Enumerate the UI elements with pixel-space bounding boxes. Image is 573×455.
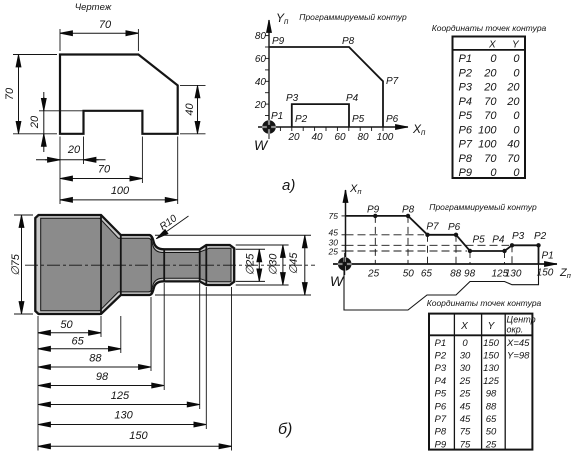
svg-text:0: 0: [462, 338, 468, 349]
W symbol origin: [258, 116, 280, 139]
dim 70 bottom: [60, 164, 142, 179]
SEC5 bottom-middle plot: [328, 183, 571, 310]
header X Y: [488, 40, 520, 51]
svg-text:∅75: ∅75: [10, 253, 22, 276]
svg-text:Чертеж: Чертеж: [75, 2, 112, 13]
svg-text:Y: Y: [488, 321, 496, 332]
dim 98: [38, 371, 164, 386]
svg-text:125: 125: [111, 390, 130, 402]
svg-text:0: 0: [513, 67, 520, 79]
svg-text:Xп: Xп: [349, 183, 361, 196]
dim d75 left: [10, 215, 33, 314]
svg-text:88: 88: [486, 401, 497, 412]
svg-text:P5: P5: [459, 110, 473, 122]
contour point dots: [373, 214, 541, 254]
svg-text:Y: Y: [512, 40, 520, 51]
mirrored lower half contour: [344, 264, 539, 310]
svg-text:30: 30: [460, 351, 471, 362]
svg-text:P2: P2: [534, 231, 547, 242]
svg-text:X: X: [488, 40, 496, 51]
column lines: [453, 314, 455, 450]
junction edge at 130: [205, 245, 207, 285]
svg-text:75: 75: [460, 427, 471, 438]
dim 125: [38, 390, 200, 405]
Y tick labels: [254, 31, 267, 111]
Z axis (horizontal): [333, 263, 557, 265]
svg-text:P9: P9: [435, 439, 447, 450]
svg-text:40: 40: [184, 103, 196, 116]
svg-text:88: 88: [450, 269, 462, 280]
svg-text:P7: P7: [386, 76, 399, 87]
dim 50: [38, 319, 101, 333]
X ticks: [280, 127, 383, 131]
svg-text:∅45: ∅45: [288, 252, 300, 275]
svg-text:80: 80: [357, 132, 369, 143]
svg-text:P4: P4: [346, 93, 359, 104]
svg-text:50: 50: [403, 269, 415, 280]
svg-text:150: 150: [483, 351, 500, 362]
dim 70 top: [60, 19, 138, 33]
svg-text:P1: P1: [271, 111, 283, 122]
Y axis: [268, 20, 270, 127]
svg-text:150: 150: [537, 268, 554, 279]
svg-text:25: 25: [459, 389, 471, 400]
svg-text:25: 25: [485, 439, 497, 450]
svg-text:70: 70: [484, 110, 497, 122]
svg-text:X=45: X=45: [506, 338, 530, 349]
svg-text:25: 25: [328, 247, 339, 257]
svg-text:130: 130: [114, 410, 133, 422]
dim d45 right: [155, 235, 311, 295]
svg-text:65: 65: [486, 414, 497, 425]
svg-text:0: 0: [490, 167, 497, 179]
header texts: [460, 315, 535, 335]
svg-text:Центр: Центр: [507, 315, 536, 325]
svg-text:∅25: ∅25: [245, 253, 257, 276]
dashed drop lines: [375, 216, 512, 264]
svg-text:P8: P8: [435, 427, 447, 438]
svg-text:Zп: Zп: [559, 267, 571, 280]
svg-text:70: 70: [507, 153, 520, 165]
svg-text:P7: P7: [426, 222, 439, 233]
svg-text:P2: P2: [295, 114, 308, 125]
svg-text:Координаты точек контура: Координаты точек контура: [427, 298, 542, 308]
svg-text:окр.: окр.: [507, 325, 524, 335]
svg-text:P5: P5: [435, 389, 447, 400]
svg-text:150: 150: [483, 338, 500, 349]
svg-text:W: W: [330, 273, 345, 289]
junction edge at 88: [150, 235, 152, 295]
part outline: [60, 55, 178, 134]
svg-text:P1: P1: [542, 251, 554, 262]
svg-text:20: 20: [254, 100, 267, 111]
svg-text:20: 20: [287, 132, 300, 143]
table frame: [453, 37, 526, 179]
junction edge at 50: [100, 215, 102, 314]
svg-text:60: 60: [255, 54, 267, 65]
junction edge at 65: [120, 235, 122, 296]
svg-text:20: 20: [506, 82, 520, 94]
centerline: [25, 264, 315, 266]
svg-text:60: 60: [334, 132, 346, 143]
dim 40 right: [184, 85, 198, 133]
svg-text:98: 98: [96, 371, 109, 383]
part inner contour (main gray fill): [41, 218, 231, 311]
svg-text:P2: P2: [435, 351, 447, 362]
svg-text:40: 40: [507, 139, 520, 151]
svg-text:0: 0: [490, 53, 497, 65]
junction edge at 98: [163, 249, 165, 281]
svg-text:20: 20: [483, 67, 497, 79]
svg-text:P5: P5: [473, 235, 486, 246]
header underline: [429, 334, 532, 336]
svg-text:P6: P6: [386, 114, 399, 125]
svg-text:20: 20: [483, 82, 497, 94]
svg-text:P7: P7: [435, 414, 447, 425]
svg-text:70: 70: [4, 87, 16, 100]
X axis: [258, 126, 408, 128]
svg-text:20: 20: [29, 115, 41, 129]
svg-text:50: 50: [60, 319, 73, 331]
svg-text:P5: P5: [352, 114, 365, 125]
dim 70 left: [4, 55, 19, 134]
X tick labels: [287, 132, 393, 143]
svg-text:45: 45: [460, 401, 471, 412]
SEC6 bottom-right table: [427, 298, 542, 450]
svg-text:98: 98: [486, 389, 497, 400]
svg-text:P7: P7: [459, 139, 473, 151]
svg-text:70: 70: [484, 96, 497, 108]
svg-text:20: 20: [506, 96, 520, 108]
dim d30 right: [236, 245, 289, 285]
extension lines: [13, 29, 206, 204]
part outer profile (light band): [35, 215, 234, 314]
dim 130: [38, 410, 206, 425]
svg-text:100: 100: [478, 139, 497, 151]
svg-text:б): б): [278, 421, 292, 438]
X axis (vertical): [345, 190, 347, 264]
SEC1 top-left drawing: [4, 2, 206, 204]
level labels 75 45 30 25: [328, 211, 339, 257]
svg-text:а): а): [282, 177, 295, 194]
svg-text:75: 75: [460, 439, 471, 450]
ext lines below part: [38, 283, 232, 451]
SEC3 top-right table: [432, 23, 547, 179]
svg-text:75: 75: [329, 211, 339, 221]
Y ticks: [265, 36, 269, 116]
svg-text:125: 125: [483, 376, 500, 387]
dim 88: [38, 353, 151, 368]
svg-text:100: 100: [111, 185, 130, 197]
junction edge at 125: [199, 249, 201, 281]
svg-text:0: 0: [513, 124, 520, 136]
svg-text:130: 130: [483, 363, 500, 374]
point labels: [271, 36, 399, 125]
svg-text:50: 50: [486, 427, 497, 438]
svg-text:P4: P4: [492, 235, 505, 246]
svg-text:P8: P8: [459, 153, 473, 165]
dim 20 left (outside arrows): [29, 92, 44, 152]
svg-text:40: 40: [311, 132, 323, 143]
svg-text:P6: P6: [435, 401, 447, 412]
svg-text:70: 70: [99, 19, 112, 31]
svg-text:Yп: Yп: [276, 11, 289, 26]
SEC4 bottom-left part: [10, 213, 315, 451]
svg-text:P8: P8: [342, 36, 355, 47]
svg-text:0: 0: [513, 110, 520, 122]
svg-text:Xп: Xп: [412, 122, 426, 137]
svg-text:65: 65: [421, 269, 433, 280]
inner rectangle P2-P3-P4-P5: [292, 104, 349, 127]
svg-text:P2: P2: [459, 67, 472, 79]
dim 150: [38, 430, 232, 446]
dim 65: [38, 336, 121, 349]
svg-text:P6: P6: [448, 222, 461, 233]
svg-text:25: 25: [459, 376, 471, 387]
svg-text:100: 100: [377, 132, 394, 143]
R10 leader: [156, 213, 188, 239]
header underline: [453, 49, 526, 51]
svg-text:0: 0: [513, 53, 520, 65]
axis level ticks: [342, 216, 346, 251]
svg-text:P3: P3: [459, 82, 473, 94]
svg-text:70: 70: [484, 153, 497, 165]
svg-text:Программируемый контур: Программируемый контур: [429, 202, 537, 212]
svg-text:Программируемый контур: Программируемый контур: [299, 12, 407, 22]
svg-text:P1: P1: [459, 53, 472, 65]
svg-text:P3: P3: [286, 93, 299, 104]
svg-text:P3: P3: [512, 231, 525, 242]
svg-text:100: 100: [478, 124, 497, 136]
programmed contour polyline: [346, 216, 539, 264]
svg-text:∅30: ∅30: [268, 253, 280, 276]
table frame: [429, 314, 532, 450]
svg-text:Координаты точек контура: Координаты точек контура: [432, 23, 547, 33]
outer contour P9-P8-P7-P6: [269, 47, 383, 127]
svg-text:88: 88: [89, 353, 102, 365]
svg-text:P9: P9: [459, 167, 472, 179]
svg-text:P6: P6: [459, 124, 473, 136]
svg-text:70: 70: [98, 164, 111, 176]
Z tick labels: [367, 268, 554, 280]
svg-text:P1: P1: [435, 338, 447, 349]
SEC2 top-middle plot: [254, 11, 426, 194]
svg-text:Y=98: Y=98: [507, 351, 530, 362]
svg-text:P9: P9: [367, 205, 380, 216]
point labels: [367, 205, 554, 262]
svg-text:80: 80: [255, 31, 267, 42]
svg-text:P8: P8: [402, 205, 415, 216]
svg-text:65: 65: [71, 336, 84, 348]
svg-text:30: 30: [460, 363, 471, 374]
svg-text:0: 0: [513, 167, 520, 179]
svg-text:130: 130: [505, 269, 522, 280]
svg-text:150: 150: [129, 430, 148, 442]
svg-text:X: X: [460, 321, 468, 332]
svg-text:P9: P9: [272, 36, 285, 47]
svg-text:45: 45: [460, 414, 471, 425]
W symbol origin: [334, 253, 355, 275]
svg-text:P4: P4: [435, 376, 447, 387]
rows P1..P9: [435, 338, 531, 451]
svg-text:P3: P3: [435, 363, 447, 374]
dim d25 right: [236, 249, 265, 281]
svg-text:25: 25: [367, 269, 380, 280]
dim 100 bottom: [60, 185, 178, 200]
dashed level lines: [346, 235, 510, 251]
svg-text:P4: P4: [459, 96, 472, 108]
svg-text:98: 98: [464, 269, 476, 280]
rows P1..P9: [459, 53, 521, 179]
svg-text:W: W: [254, 137, 269, 153]
svg-text:40: 40: [255, 77, 267, 88]
svg-text:45: 45: [329, 228, 339, 238]
svg-text:20: 20: [67, 144, 81, 156]
dim 20 bottom (outside arrows): [36, 144, 106, 160]
